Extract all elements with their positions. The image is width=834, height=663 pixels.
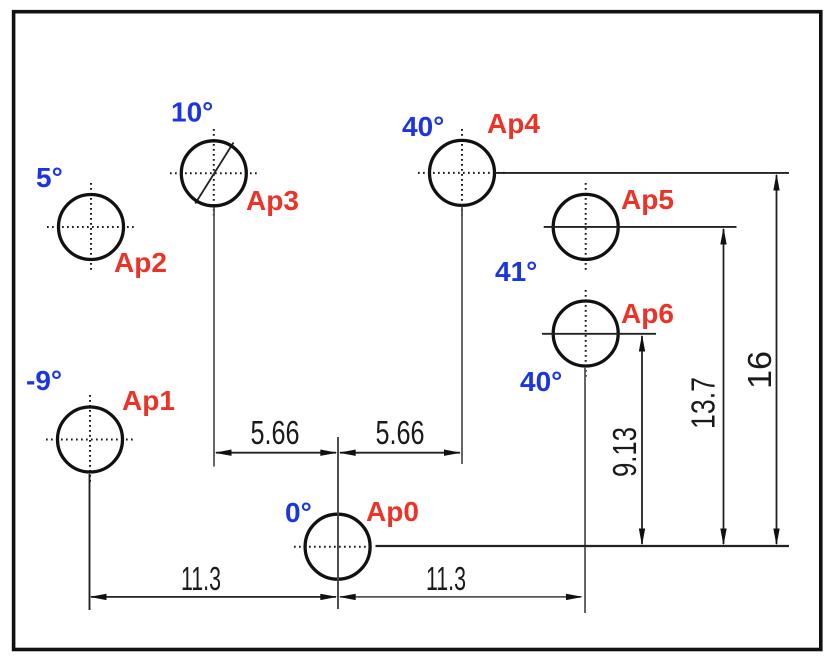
svg-text:Ap2: Ap2 xyxy=(114,247,167,278)
dimension 16 arrow down xyxy=(773,529,779,546)
aperture Ap5 circle xyxy=(553,194,618,259)
svg-text:5°: 5° xyxy=(36,162,63,193)
svg-text:16: 16 xyxy=(741,351,778,389)
aperture Ap4 circle xyxy=(430,140,495,205)
dimension line 9.13 horizontal from Ap6 xyxy=(542,333,656,335)
svg-text:41°: 41° xyxy=(495,256,537,287)
svg-text:0°: 0° xyxy=(285,497,312,528)
svg-text:Ap1: Ap1 xyxy=(122,385,175,416)
dimension 16 vertical line xyxy=(776,175,778,544)
aperture Ap0 horizontal crosshair xyxy=(294,546,374,548)
svg-text:40°: 40° xyxy=(520,366,562,397)
dimension 5.66 right line xyxy=(340,452,460,454)
extension line through Ap0 xyxy=(337,437,339,609)
svg-text:9.13: 9.13 xyxy=(606,427,643,477)
svg-text:11.3: 11.3 xyxy=(181,560,221,597)
aperture Ap3 crosshair xyxy=(170,129,258,218)
extension line below Ap4 xyxy=(461,207,463,465)
extension line below Ap3 xyxy=(213,208,215,467)
dimension 5.66 left arrow right xyxy=(320,450,337,456)
svg-text:5.66: 5.66 xyxy=(251,414,300,451)
dimension 13.7 arrow up xyxy=(720,228,726,245)
dimension 11.3 left line xyxy=(91,596,336,598)
extension line below Ap1 xyxy=(89,474,91,610)
svg-text:13.7: 13.7 xyxy=(685,377,722,429)
dimension 11.3 left arrow right xyxy=(320,594,337,600)
aperture Ap3 circle xyxy=(181,141,246,206)
dimension 13.7 vertical line xyxy=(723,229,725,544)
dimension 9.13 arrow up xyxy=(639,335,645,352)
dimension line 16 horizontal from Ap4 xyxy=(496,172,790,174)
svg-text:-9°: -9° xyxy=(26,365,62,396)
dimension 11.3 left arrow left xyxy=(90,594,107,600)
aperture Ap1 circle xyxy=(58,407,123,472)
svg-text:Ap5: Ap5 xyxy=(621,184,674,215)
dimension line 13.7 horizontal from Ap5 xyxy=(544,226,737,228)
aperture Ap5 vertical crosshair xyxy=(585,183,587,271)
svg-text:11.3: 11.3 xyxy=(426,560,466,597)
dimension 11.3 right arrow left xyxy=(339,594,356,600)
extension line below Ap6 xyxy=(584,367,586,613)
svg-text:10°: 10° xyxy=(171,97,213,128)
aperture Ap4 crosshair xyxy=(418,129,506,217)
dimension 11.3 right line xyxy=(340,596,581,598)
aperture Ap3 diagonal line xyxy=(195,143,233,204)
aperture Ap2 circle xyxy=(59,195,124,260)
aperture Ap6 vertical crosshair xyxy=(585,290,587,378)
dimension 5.66 right arrow right xyxy=(444,450,461,456)
svg-text:Ap0: Ap0 xyxy=(366,496,419,527)
aperture Ap0 circle xyxy=(305,514,370,579)
dimension 5.66 right arrow left xyxy=(339,450,356,456)
dimension line horizontal from Ap0 xyxy=(376,545,790,547)
aperture Ap2 crosshair xyxy=(47,183,135,271)
dimension 9.13 arrow down xyxy=(639,529,645,546)
dimension 13.7 arrow down xyxy=(720,529,726,546)
aperture Ap6 circle xyxy=(553,301,618,366)
dimension 16 arrow up xyxy=(773,174,779,191)
svg-text:Ap4: Ap4 xyxy=(487,108,540,139)
svg-text:40°: 40° xyxy=(402,111,444,142)
aperture Ap1 crosshair xyxy=(46,395,134,484)
dimension 5.66 left line xyxy=(216,452,336,454)
dimension 11.3 right arrow right xyxy=(566,594,583,600)
svg-text:Ap3: Ap3 xyxy=(246,185,299,216)
svg-text:5.66: 5.66 xyxy=(376,414,425,451)
dimension 9.13 vertical line xyxy=(641,336,643,544)
dimension 5.66 left arrow left xyxy=(215,450,232,456)
svg-text:Ap6: Ap6 xyxy=(621,298,674,329)
